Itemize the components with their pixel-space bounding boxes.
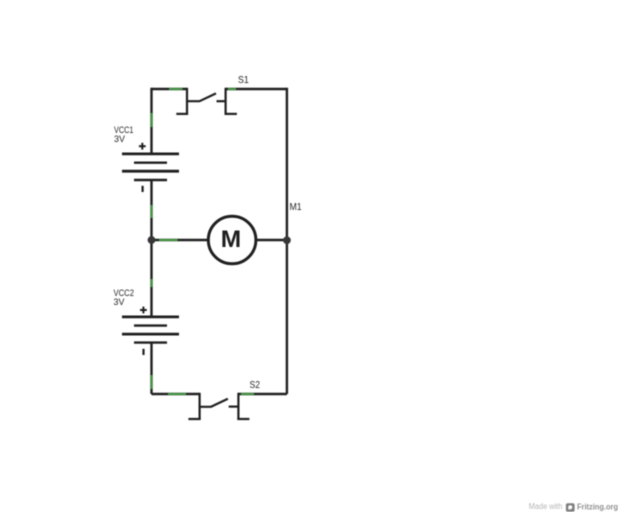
svg-text:S2: S2 <box>250 379 261 391</box>
switch S2 <box>188 393 249 419</box>
battery VCC1 <box>122 154 179 180</box>
wire green end above VCC2 <box>150 279 152 287</box>
wire green end above node A <box>150 205 152 218</box>
wire green end above VCC1 <box>150 113 152 127</box>
wire left vertical lower <box>150 343 152 394</box>
svg-text:3V: 3V <box>114 297 125 307</box>
wire motor left horizontal <box>152 239 209 241</box>
wire green end bottom-right <box>241 393 254 395</box>
svg-text:M: M <box>221 226 241 253</box>
wire green end bottom-left <box>168 393 186 395</box>
wire right vertical upper <box>286 88 288 240</box>
wire motor right horizontal <box>256 239 287 241</box>
svg-text:S1: S1 <box>238 74 249 86</box>
label VCC2 minus <box>142 349 144 355</box>
wire bottom-right horizontal <box>238 393 287 395</box>
battery VCC2 <box>122 317 179 343</box>
switch S1 <box>176 88 237 114</box>
svg-text:Made with: Made with <box>529 502 563 511</box>
wire green end top-left <box>169 88 183 90</box>
wire bottom-left horizontal <box>152 393 200 395</box>
wire green end above bottom corner <box>150 375 152 389</box>
svg-text:Fritzing.org: Fritzing.org <box>577 502 618 511</box>
wire top-left horizontal <box>152 88 188 90</box>
node B right junction <box>283 236 291 244</box>
wire left vertical middle <box>150 180 152 317</box>
label VCC2 plus <box>140 307 147 314</box>
wire right vertical lower <box>286 240 288 394</box>
wire top-middle horizontal <box>226 88 287 90</box>
label VCC1 minus <box>142 186 144 192</box>
label VCC1 plus <box>139 143 146 150</box>
wire left vertical upper <box>150 88 152 154</box>
wire green end top-right <box>228 88 236 90</box>
footer Fritzing logo <box>566 503 575 511</box>
wire green end motor left <box>159 239 178 241</box>
motor M1 <box>208 216 256 264</box>
svg-text:3V: 3V <box>114 134 125 144</box>
svg-text:M1: M1 <box>290 202 303 213</box>
node A left junction <box>148 236 156 244</box>
